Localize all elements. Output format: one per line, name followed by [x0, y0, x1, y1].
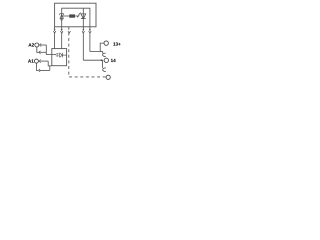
terminal 13 screw circle [104, 41, 108, 45]
suppressor diode D1 (on left branch) [60, 14, 64, 20]
terminal A1 plug contact [38, 60, 48, 63]
resistor R1 (filled, series) [62, 14, 79, 17]
socket fork on dashed drop 3 [68, 31, 70, 33]
terminal 14 screw circle [104, 58, 108, 62]
output wire to terminal 13 [90, 43, 104, 53]
terminal A1 second plug contact [36, 63, 49, 72]
terminal 13 label [113, 42, 120, 45]
plug-in contact drop 5 [89, 27, 91, 52]
wire up into coupler box bottom [49, 66, 51, 70]
terminal A2 plug contact [39, 44, 47, 47]
terminal A2 screw circle [35, 43, 39, 47]
LED indicator (on right branch) [77, 13, 86, 19]
terminal 14 label [111, 59, 116, 62]
terminal A2 label [28, 43, 34, 46]
plug-in contact drop 1 (arrow + socket fork) [53, 27, 55, 49]
output wire to terminal 14 [83, 59, 103, 61]
wire A2 to coupler box [46, 45, 56, 55]
relay module outline (top box) [55, 3, 96, 27]
stub down from 14 wire to spare fork [101, 60, 103, 68]
photodetector diode inside coupler [56, 53, 67, 58]
terminal A2 second plug contact [37, 47, 47, 54]
spare plug fork on 13 stub [103, 53, 106, 56]
bottom bridge terminal circle [106, 75, 110, 79]
wire A1 to coupler box lower-left [48, 61, 52, 66]
inner input loop wire [62, 8, 90, 27]
optocoupler box [52, 49, 67, 66]
spare plug fork below 14 [103, 68, 106, 72]
plug-in contact drop 4 [82, 27, 84, 60]
terminal A1 screw circle [34, 59, 38, 63]
plug-in contact drop 2 [61, 27, 63, 49]
dashed option drop 3 [69, 27, 106, 77]
terminal A1 label [28, 59, 34, 62]
